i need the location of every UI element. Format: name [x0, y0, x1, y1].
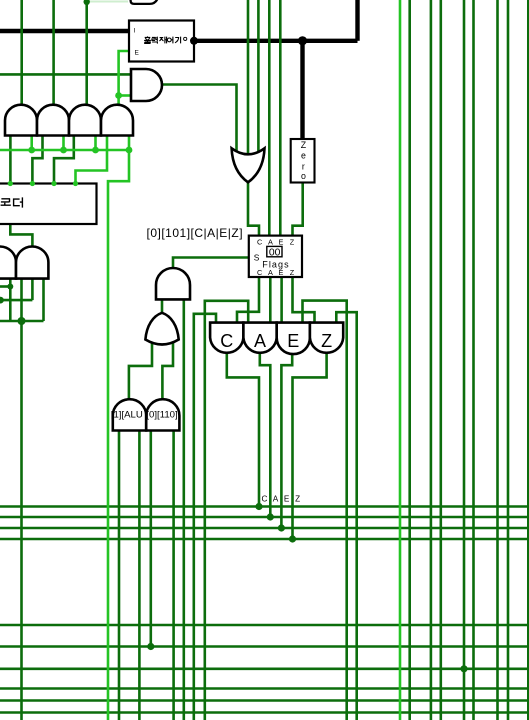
wire: OR G2 right input from top edge [257, 0, 260, 154]
svg-text:Z: Z [290, 268, 295, 277]
wire: bottom bus rail 6 [0, 711, 529, 714]
svg-text:Z: Z [295, 494, 300, 503]
or-gate G2 facing south [232, 148, 265, 182]
junction: ones bus end tap [126, 147, 133, 154]
wire: U3 right input stub [94, 136, 97, 151]
wire: horizontal input to AND U1 upper input [0, 73, 131, 76]
junction: left net junction upper [7, 284, 13, 290]
wire: Flags E output to gate E left input [280, 277, 283, 323]
and-gate indicator A facing south [243, 323, 276, 353]
wire: AND G6 left input column to junction on rail [150, 431, 153, 647]
wire: OR G2 middle input from top edge [247, 0, 250, 156]
wire: gate Z output to rail Z [293, 353, 327, 539]
junction: ones bus tap 1 [28, 147, 35, 154]
wire: Flags C output jog to gate C right input [237, 277, 259, 323]
and-gate U4 facing north [69, 105, 101, 136]
svg-text:A: A [273, 494, 279, 503]
wire: AND G3 right input long column to bottom [183, 299, 186, 720]
wire: AND G5 right input column to bottom [138, 431, 141, 720]
junction: left net junction on G8 column [18, 317, 26, 325]
svg-text:A: A [268, 268, 273, 277]
svg-text:C: C [262, 494, 268, 503]
glyph 기 [175, 37, 181, 44]
junction: ones bus tap 3 [92, 147, 99, 154]
wire: Zero detector output to Flags Z input [293, 183, 303, 236]
and-gate G3 facing north [156, 268, 190, 299]
wire: AND gate U4 output column to top edge [85, 0, 88, 106]
wire: bus end dropping to long bright column [108, 150, 129, 720]
wire: U4 left input staircase to decoder pin 4 [76, 136, 108, 184]
and-gate U1 facing east [131, 69, 162, 101]
wire: horizontal net exiting left edge lower [0, 320, 44, 323]
and-gate U5 facing north [101, 105, 133, 136]
svg-text:C: C [257, 268, 262, 277]
svg-text:A: A [254, 331, 266, 351]
wire: AND G8 left input long column to bottom [20, 279, 23, 720]
svg-text:E: E [287, 331, 299, 351]
label: decoder title 코더 drawn as vector strokes [1, 197, 23, 207]
wire: rail A horizontal [0, 516, 529, 519]
wire: black bus into controller I input [0, 29, 129, 33]
and-gate indicator E facing south [277, 323, 310, 355]
component: Zero detector box [291, 139, 315, 183]
svg-text:Z: Z [321, 331, 332, 351]
wire: AND G5 left input column to bottom [118, 431, 121, 720]
wire: rail C horizontal [0, 505, 529, 508]
pin: decoder input pin 1 [8, 181, 13, 186]
wire: horizontal ones bus above decoder [0, 149, 129, 152]
wire: rail Z horizontal [0, 538, 529, 541]
wire: decoder output pin staircase to AND G8 output [10, 224, 32, 247]
svg-text:Z: Z [301, 140, 307, 150]
wire: right vertical column 3 [430, 0, 433, 720]
svg-text:S: S [254, 253, 260, 263]
wire: right vertical column 4 [439, 0, 442, 720]
junction: rail A termination of gate A output [267, 513, 274, 520]
svg-text:E: E [278, 238, 283, 247]
register Flags: value box 00 [267, 246, 282, 256]
junction: G6 left input column on bottom rail 2 [147, 643, 154, 650]
wire: OR G4 right input staircase from AND G6 output [162, 342, 173, 399]
wire: right vertical column 8 [507, 0, 510, 720]
wire: AND G6 right input column to bottom [172, 431, 175, 720]
svg-text:[1][ALU: [1][ALU [111, 409, 143, 420]
svg-text:[0][101][C|A|E|Z]: [0][101][C|A|E|Z] [147, 226, 244, 240]
label: controller title 출력제어기 drawn as vector strokes [144, 36, 181, 43]
wire: OR G4 left input staircase from AND G5 output [129, 342, 152, 399]
svg-text:o: o [301, 171, 306, 181]
wire: right bright vertical column 1 [399, 0, 402, 720]
pin: decoder input pin 4 [73, 181, 78, 186]
wire: U4 right input stub [128, 136, 131, 151]
pin: decoder input pin 3 [51, 181, 56, 186]
wire: OR G2 output to Flags C input [248, 183, 259, 236]
wire: gate Z right enable feed [336, 312, 356, 720]
and-gate G6 labeled [0][110] facing north [146, 399, 179, 430]
svg-text:r: r [302, 161, 305, 171]
and-gate G8 facing north [16, 246, 48, 278]
wire: right vertical column 9 at edge [527, 0, 529, 720]
junction: bright branch to AND U1 lower input [115, 92, 122, 99]
wire: branch to AND U1 lower input [119, 94, 131, 97]
wire: AND G8 right input stub to horizontal [42, 279, 45, 321]
glyph 제 [159, 37, 166, 44]
wire: AND G7 right input stub [9, 279, 12, 321]
glyph 력 [152, 37, 158, 44]
wire: right vertical column 2 [408, 0, 411, 720]
wire: AND G8 middle input stub [31, 279, 34, 301]
component: cropped box bottom at top edge [131, 0, 159, 4]
wire: gate E output to rail E [281, 354, 292, 528]
glyph 더 [14, 197, 23, 207]
junction: rail C termination of gate C output [255, 503, 262, 510]
wire: Flags A input column from top edge [268, 0, 271, 236]
wire: rail E horizontal [0, 527, 529, 530]
wire: bottom bus rail 5 [0, 699, 529, 702]
wire: U3 left input staircase to decoder pin 2 [32, 136, 42, 184]
glyph 출 [144, 36, 151, 43]
and-gate U2 facing north [5, 105, 37, 136]
svg-text:C: C [257, 238, 262, 247]
svg-text:e: e [301, 151, 306, 161]
wire: black bus vertical to top edge [355, 0, 359, 41]
pin: decoder input pin 2 [30, 181, 35, 186]
wire: bottom bus rail 4 [0, 687, 529, 690]
wire: bottom bus rail 1 [0, 624, 529, 627]
junction: rail Z termination of gate Z output [289, 535, 296, 542]
wire: stub right from node at top of U4 column [87, 1, 128, 3]
junction: left edge net half dot [0, 297, 4, 304]
and-gate indicator Z facing south [310, 323, 343, 353]
wire: bottom bus rail 2 [0, 645, 529, 648]
junction: ones bus tap 2 [60, 147, 67, 154]
label: controller clock circle [184, 37, 187, 40]
svg-text:Flags: Flags [262, 259, 290, 269]
svg-text:E: E [284, 494, 290, 503]
wire: U2 right input stub [62, 136, 65, 151]
wire: right vertical column 6 [472, 0, 475, 720]
and-gate G5 labeled [1][ALU] facing north [113, 399, 146, 430]
wire: horizontal net exiting left edge upper [0, 285, 10, 288]
wire: OR G4 output to AND G3 left input [161, 299, 164, 313]
svg-text:A: A [268, 238, 273, 247]
wire: U1 right input stub [30, 136, 33, 151]
svg-text:[0][110]: [0][110] [146, 409, 177, 420]
wire: horizontal net exiting left edge middle [0, 299, 32, 302]
wire: U4 gate output to controller E input and AND U1 lower input [119, 51, 129, 105]
wire: gate C output to rail C [227, 353, 259, 507]
and-gate indicator C facing south [210, 323, 243, 353]
wire: right vertical column 7 [496, 0, 499, 720]
wire: AND G3 output to Flags s input [173, 258, 249, 269]
wire: Flags Z output jog to gate Z left input [293, 277, 315, 323]
wire: bottom bus rail 3 [0, 667, 529, 670]
subcircuit box: decoder 코더 [0, 184, 97, 225]
junction: right column 5 on bottom rail 3 [460, 665, 467, 672]
wire: U2 left input down to decoder pin 1 [9, 136, 12, 184]
wire: AND U1 output to OR G2 input [162, 85, 237, 155]
glyph 코 [1, 199, 11, 205]
wire: black bus branch down to Zero detector [300, 41, 304, 139]
wire: gate A left enable feed [205, 301, 248, 720]
wire: AND gate U2 output column to top edge [20, 0, 23, 106]
junction: black bus branch node [298, 36, 307, 45]
or-gate G4 facing north [145, 313, 178, 345]
glyph 어 [167, 38, 171, 42]
junction: rail E termination of gate E output [278, 524, 285, 531]
wire: gate C left enable feed [194, 314, 216, 720]
wire: AND gate U3 output column to top edge [52, 0, 55, 106]
wire: right vertical column 5 [463, 0, 466, 720]
svg-text:I: I [134, 28, 136, 35]
and-gate U3 facing north [37, 105, 69, 136]
junction: top of U4 output column [84, 0, 90, 5]
wire: black bus from controller output [194, 39, 358, 43]
subcircuit box: output controller 출력제어기 [129, 21, 194, 62]
svg-text:Z: Z [290, 238, 295, 247]
junction: controller output node [190, 37, 198, 45]
wire: U4 left input staircase to decoder pin 3 [54, 136, 74, 184]
wire: Flags A output to gate A right input [269, 277, 272, 323]
svg-text:00: 00 [269, 247, 281, 258]
svg-text:E: E [278, 268, 283, 277]
wire: gate A output to rail A [260, 354, 271, 517]
register: Flags [249, 236, 302, 277]
and-gate G7 facing north partially cropped [0, 246, 16, 278]
svg-text:C: C [220, 331, 233, 351]
wire: Flags E input column from top edge [279, 0, 282, 236]
svg-text:E: E [135, 50, 140, 57]
wire: gate E right enable feed [303, 301, 347, 720]
